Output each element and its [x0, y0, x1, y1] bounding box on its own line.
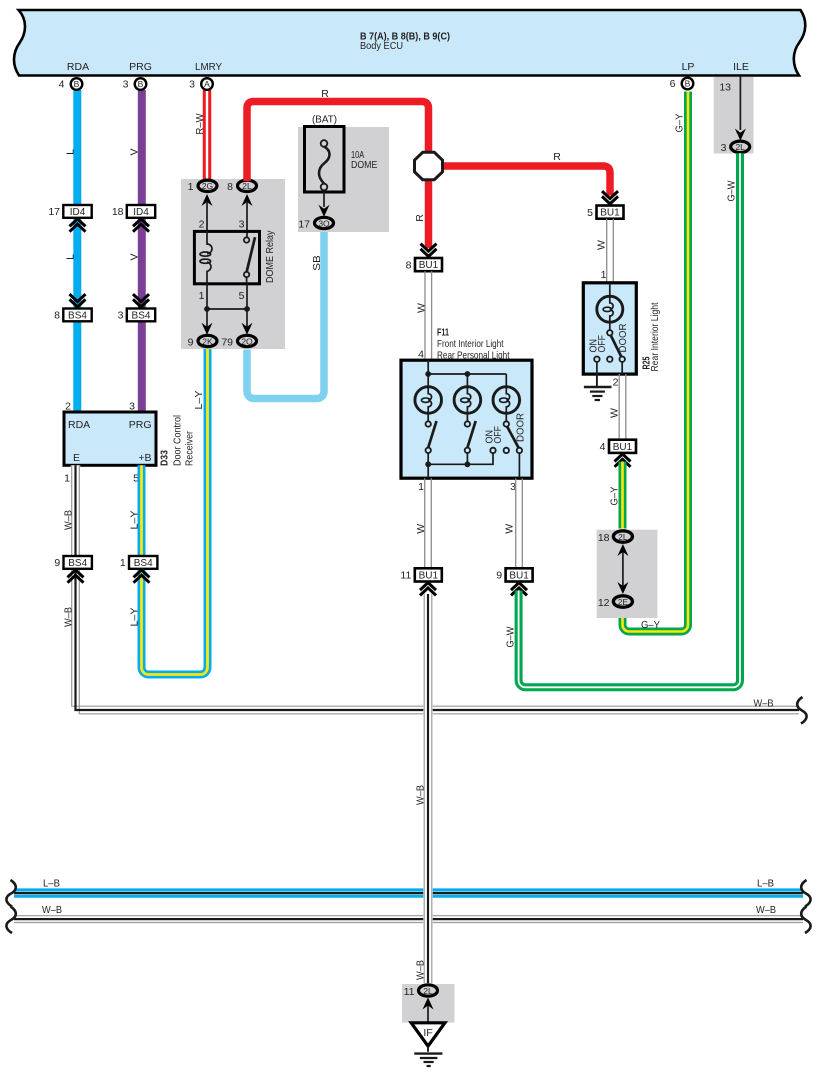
svg-text:2L: 2L — [423, 986, 433, 996]
chevron arrow up below 9 BU1 — [511, 583, 527, 596]
svg-text:2L: 2L — [735, 142, 745, 152]
svg-text:L–Y: L–Y — [129, 511, 141, 530]
F11 bottom bus — [425, 453, 493, 467]
wire W from R25 pin 2 to 4 BU1 — [609, 374, 626, 440]
component F11 Front Interior Light / Rear Personal Light — [401, 327, 532, 479]
F11 bulb 3 — [493, 387, 520, 414]
svg-text:9: 9 — [188, 336, 194, 348]
svg-text:L: L — [65, 254, 77, 260]
DOME relay gray box — [181, 179, 285, 349]
svg-text:G–W: G–W — [726, 180, 738, 201]
wire G-Y from 4 BU1 to 18 2L — [609, 462, 623, 529]
svg-text:W: W — [415, 303, 427, 313]
svg-text:8: 8 — [406, 259, 412, 271]
pin circle B (PRG pin 3) — [123, 78, 147, 91]
svg-text:BS4: BS4 — [132, 310, 151, 321]
pin circle B (RDA pin 4) — [59, 78, 83, 91]
svg-text:V: V — [129, 148, 141, 155]
svg-text:13: 13 — [719, 82, 731, 94]
wire W from 5 BU1 to R25 pin 1 — [595, 219, 613, 283]
svg-text:PRG: PRG — [129, 61, 152, 73]
svg-text:11: 11 — [400, 570, 411, 582]
connector 17 ID4 — [48, 205, 91, 218]
svg-text:OFF: OFF — [596, 335, 608, 353]
svg-text:LP: LP — [682, 61, 695, 73]
svg-text:1: 1 — [601, 269, 607, 281]
chevron arrow down above 8 BU1 — [421, 244, 437, 257]
svg-text:E: E — [73, 452, 80, 464]
svg-text:12: 12 — [598, 597, 610, 609]
svg-text:BU1: BU1 — [419, 260, 439, 271]
wire V (violet) PRG column — [129, 90, 142, 412]
svg-text:PRG: PRG — [129, 419, 152, 431]
svg-text:BS4: BS4 — [68, 558, 87, 569]
svg-text:2: 2 — [613, 377, 619, 389]
svg-text:B: B — [138, 79, 144, 89]
svg-text:SB: SB — [311, 255, 323, 271]
wire W-B from D33 pin E to right edge — [63, 465, 800, 714]
wire R-W LMRY column — [194, 90, 207, 181]
ground symbol bottom — [414, 1046, 442, 1066]
connector 18 ID4 — [112, 205, 155, 218]
svg-text:4: 4 — [59, 79, 65, 91]
svg-text:4: 4 — [600, 441, 606, 453]
svg-text:W–B: W–B — [754, 698, 774, 710]
connector 8 BU1 — [406, 258, 442, 271]
R25 ground — [584, 374, 612, 400]
chevron arrow up below 17 ID4 — [70, 219, 86, 232]
svg-text:R–W: R–W — [194, 113, 206, 134]
svg-text:R: R — [321, 88, 329, 100]
svg-text:L–B: L–B — [757, 878, 774, 890]
F11 switch 3 ON OFF DOOR — [483, 413, 526, 478]
svg-text:G–Y: G–Y — [674, 114, 686, 133]
wire G-W from ILE 2L to 9 BU1 — [505, 153, 741, 687]
connector 4 BU1 — [600, 440, 636, 453]
svg-text:D33: D33 — [159, 450, 171, 466]
chevron arrow down above 5 BU1 — [602, 191, 618, 204]
svg-text:W: W — [503, 524, 515, 534]
fuse 10A DOME — [305, 127, 378, 193]
wire R branch to 5 BU1 — [443, 151, 611, 196]
F11 bulb 2 — [454, 387, 481, 414]
svg-text:3: 3 — [118, 310, 124, 322]
connector oval 12 2E — [598, 596, 633, 609]
svg-text:B: B — [74, 79, 80, 89]
IF ground triangle — [411, 1023, 445, 1046]
svg-text:W: W — [415, 524, 427, 534]
connector oval 17 3Q — [298, 217, 333, 230]
connector oval 1 2G — [188, 180, 217, 193]
wire W from 8 BU1 to F11 pin 4 — [415, 271, 431, 360]
relay output wires and tie — [204, 284, 250, 330]
solid arrow down into 2Q — [242, 323, 253, 335]
connector 3 BS4 — [118, 309, 156, 322]
2L/2E gray box — [597, 530, 658, 618]
svg-text:3: 3 — [189, 79, 195, 91]
svg-text:DOOR: DOOR — [617, 323, 629, 352]
break symbol right end of W-B — [797, 697, 806, 724]
svg-text:ILE: ILE — [733, 61, 749, 73]
wire W F11 pin1 to 11 BU1 — [415, 478, 431, 568]
svg-text:W–B: W–B — [63, 510, 75, 530]
connector 11 BU1 — [400, 568, 441, 581]
svg-text:RDA: RDA — [67, 61, 89, 73]
wire R main run from 2L up right and down — [247, 88, 429, 248]
bottom gray box — [402, 984, 455, 1023]
R25 switch ON OFF DOOR — [587, 323, 629, 374]
svg-text:3: 3 — [123, 79, 129, 91]
component D33 Door Control Receiver — [64, 401, 196, 485]
svg-text:2K: 2K — [202, 336, 213, 346]
svg-text:8: 8 — [54, 310, 60, 322]
svg-text:L–B: L–B — [43, 878, 60, 890]
svg-text:2E: 2E — [618, 597, 629, 607]
svg-text:18: 18 — [598, 532, 610, 544]
wire SB from 2Q to 3Q — [247, 232, 324, 399]
svg-text:Body ECU: Body ECU — [360, 40, 403, 52]
fuse gray box — [298, 127, 389, 232]
junction octagon node — [415, 152, 443, 179]
connector oval 11 2L (bottom) — [404, 985, 438, 998]
svg-text:Rear Interior Light: Rear Interior Light — [649, 302, 661, 371]
svg-text:G–Y: G–Y — [641, 619, 660, 631]
svg-text:G–Y: G–Y — [609, 487, 621, 506]
svg-text:2L: 2L — [242, 181, 252, 191]
svg-text:R: R — [553, 151, 561, 163]
double arrow between 2L and 2E — [617, 544, 628, 594]
connector oval 9 2K — [188, 335, 217, 348]
connector oval 8 2L — [227, 180, 256, 193]
svg-text:ID4: ID4 — [70, 207, 86, 218]
wire L (blue) RDA column — [65, 90, 78, 412]
connector oval 79 2Q — [221, 335, 256, 348]
pin circle B (LP pin 6) — [670, 78, 694, 91]
svg-text:OFF: OFF — [492, 426, 504, 444]
solid arrow down into ILE 2L — [735, 129, 746, 141]
svg-text:(BAT): (BAT) — [312, 114, 337, 126]
svg-text:L–Y: L–Y — [129, 608, 141, 627]
svg-text:RDA: RDA — [68, 419, 90, 431]
relay box — [194, 231, 259, 283]
ILE gray box — [714, 77, 754, 154]
svg-text:17: 17 — [298, 218, 310, 230]
svg-text:1: 1 — [418, 481, 424, 493]
svg-text:R: R — [414, 214, 426, 222]
svg-text:B: B — [685, 79, 691, 89]
chevron arrow down above 8 BS4 — [70, 294, 86, 307]
svg-text:IF: IF — [423, 1027, 432, 1039]
svg-text:5: 5 — [587, 207, 593, 219]
break symbols W-B — [6, 907, 15, 934]
pin circle A (LMRY pin 3) — [189, 78, 213, 91]
wire relay pin3 — [246, 200, 248, 237]
component R25 Rear Interior Light — [583, 269, 661, 374]
svg-text:3: 3 — [239, 219, 245, 231]
connector 5 BU1 — [587, 206, 623, 219]
wire L-Y from D33 pin +B to relay 2K — [129, 349, 208, 675]
svg-text:W–B: W–B — [42, 904, 62, 916]
svg-text:79: 79 — [221, 336, 233, 348]
connector 8 BS4 — [54, 309, 92, 322]
chevron arrow down above 3 BS4 — [133, 294, 149, 307]
chevron arrow up below 18 ID4 — [133, 219, 149, 232]
svg-text:2Q: 2Q — [241, 336, 253, 346]
F11 switch 1 — [426, 413, 437, 478]
wire G-Y from LP to 12 2E — [623, 92, 689, 632]
svg-text:17: 17 — [48, 206, 60, 218]
chevron arrow up below 9 BS4 — [68, 570, 84, 583]
svg-text:W–B: W–B — [415, 960, 427, 980]
svg-text:6: 6 — [670, 78, 676, 90]
connector oval 18 2L — [598, 531, 633, 544]
svg-text:18: 18 — [112, 206, 124, 218]
svg-text:8: 8 — [227, 181, 233, 193]
svg-text:9: 9 — [54, 557, 60, 569]
svg-text:G–W: G–W — [505, 626, 517, 647]
solid arrow up into 2G — [202, 194, 213, 206]
svg-text:1: 1 — [120, 557, 126, 569]
svg-text:W–B: W–B — [756, 904, 776, 916]
svg-text:DOOR: DOOR — [514, 413, 526, 442]
bus W-B horizontal — [14, 904, 803, 923]
svg-text:Receiver: Receiver — [184, 431, 196, 466]
chevron arrow up below 4 BU1 — [615, 454, 631, 467]
wire W F11 pin3 to 9 BU1 — [503, 478, 522, 568]
svg-text:W–B: W–B — [415, 785, 427, 805]
svg-text:+B: +B — [138, 452, 151, 464]
solid arrow up into 2L — [242, 194, 253, 206]
svg-text:11: 11 — [404, 986, 415, 998]
svg-text:BU1: BU1 — [509, 570, 529, 581]
svg-text:9: 9 — [496, 570, 502, 582]
connector 1 BS4 — [120, 556, 158, 569]
svg-text:BU1: BU1 — [613, 442, 633, 453]
F11 top bus — [425, 360, 506, 387]
relay switch — [244, 237, 255, 284]
chevron arrow up below 1 BS4 — [134, 570, 150, 583]
svg-text:V: V — [129, 253, 141, 260]
svg-text:1: 1 — [64, 473, 70, 485]
relay coil — [207, 231, 212, 284]
svg-text:BU1: BU1 — [419, 570, 439, 581]
svg-text:2: 2 — [199, 219, 205, 231]
wire W-B from 11 BU1 down to IF ground — [415, 594, 432, 983]
svg-text:LMRY: LMRY — [195, 61, 222, 73]
solid arrow down into 3Q — [319, 205, 330, 217]
svg-text:5: 5 — [239, 290, 245, 302]
svg-text:3Q: 3Q — [318, 218, 330, 228]
svg-text:Front Interior Light: Front Interior Light — [437, 338, 504, 350]
svg-text:1: 1 — [188, 181, 194, 193]
svg-text:3: 3 — [721, 142, 727, 154]
arrow up into bottom 2L and wire — [423, 998, 434, 1023]
connector 9 BU1 — [496, 568, 532, 581]
wire fuse to 3Q — [323, 190, 325, 207]
svg-text:F11: F11 — [437, 327, 449, 339]
svg-text:BS4: BS4 — [134, 558, 153, 569]
svg-text:2G: 2G — [202, 181, 213, 191]
svg-text:A: A — [204, 79, 210, 89]
body ECU box — [14, 10, 805, 76]
svg-text:Door Control: Door Control — [172, 415, 184, 466]
svg-text:BU1: BU1 — [600, 208, 620, 219]
F11 bulb 1 — [415, 374, 442, 413]
break symbols L-B — [6, 880, 15, 907]
svg-text:DOME: DOME — [351, 159, 377, 171]
svg-text:ID4: ID4 — [133, 207, 149, 218]
svg-text:W: W — [595, 240, 607, 250]
connector 9 BS4 — [54, 556, 92, 569]
svg-text:W–B: W–B — [63, 607, 75, 627]
wire ILE pin 13 — [719, 76, 740, 130]
svg-text:1: 1 — [199, 290, 205, 302]
solid arrow down into 2K — [202, 323, 213, 335]
svg-text:2L: 2L — [618, 532, 628, 542]
wire relay pin2 — [206, 200, 208, 231]
svg-text:DOME Relay: DOME Relay — [264, 230, 276, 283]
connector oval 3 2L (ILE) — [721, 141, 750, 154]
R25 bulb — [597, 283, 623, 330]
bus L-B horizontal — [14, 878, 803, 897]
svg-text:W: W — [609, 408, 621, 418]
svg-text:L–Y: L–Y — [193, 391, 205, 410]
chevron arrow up below 11 BU1 — [420, 583, 436, 596]
svg-text:BS4: BS4 — [68, 310, 87, 321]
svg-text:L: L — [65, 149, 77, 155]
F11 switch 2 — [465, 413, 476, 464]
